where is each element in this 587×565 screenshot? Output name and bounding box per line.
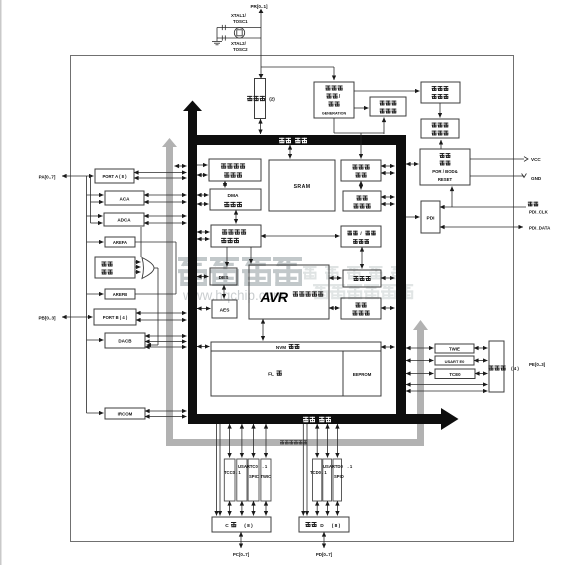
svg-text:PDI_CLK: PDI_CLK <box>529 210 549 215</box>
svg-text:ADCA: ADCA <box>117 218 131 223</box>
svg-text:PORT A ( 8 ): PORT A ( 8 ) <box>102 174 127 179</box>
svg-text:(2): (2) <box>269 97 275 102</box>
svg-text:GND: GND <box>531 176 542 181</box>
svg-text:FL: FL <box>268 372 274 378</box>
svg-text:( 8 ): ( 8 ) <box>332 523 341 529</box>
svg-text:PA[0..7]: PA[0..7] <box>39 175 56 180</box>
svg-text:NVM: NVM <box>276 345 286 350</box>
svg-text:XTAL2/: XTAL2/ <box>231 41 247 46</box>
svg-text:( 8 ): ( 8 ) <box>244 523 253 529</box>
svg-text:PD[0..7]: PD[0..7] <box>316 552 333 557</box>
svg-text:USARTD0: USARTD0 <box>323 464 343 469</box>
svg-text:USARTC0: USARTC0 <box>238 464 258 469</box>
svg-text:C: C <box>225 523 229 529</box>
svg-text:AVR: AVR <box>259 289 288 305</box>
svg-text:PORT B ( 4 ): PORT B ( 4 ) <box>103 315 128 320</box>
svg-text:SPID: SPID <box>334 474 344 479</box>
svg-text:TCE0: TCE0 <box>449 372 461 377</box>
svg-text:TCC0 . 1: TCC0 . 1 <box>224 470 241 475</box>
svg-text:TWIC: TWIC <box>261 474 272 479</box>
svg-text:SPIC: SPIC <box>249 474 259 479</box>
svg-text:XTAL1/: XTAL1/ <box>231 13 247 18</box>
svg-text:VCC: VCC <box>531 157 541 162</box>
svg-text:DES: DES <box>219 275 230 281</box>
svg-text:RESET: RESET <box>438 177 453 182</box>
svg-text:( 4 ): ( 4 ) <box>511 366 519 371</box>
svg-text:GENERATION: GENERATION <box>322 112 347 116</box>
svg-text:D: D <box>320 523 324 529</box>
svg-text:DACB: DACB <box>118 339 132 344</box>
svg-text:PE[0..3]: PE[0..3] <box>529 362 546 367</box>
svg-text:. 1: . 1 <box>348 464 353 469</box>
svg-text:EEPROM: EEPROM <box>353 372 372 377</box>
svg-text:PB[0..3]: PB[0..3] <box>38 316 56 321</box>
svg-text:AREFA: AREFA <box>113 240 127 245</box>
svg-text:DMA: DMA <box>228 193 239 199</box>
svg-text:TWIE: TWIE <box>449 347 460 352</box>
svg-text:. 1: . 1 <box>263 464 268 469</box>
svg-text:SRAM: SRAM <box>294 184 311 190</box>
svg-text:ACA: ACA <box>120 197 131 202</box>
svg-text:AREFB: AREFB <box>113 292 127 297</box>
svg-text:IRCOM: IRCOM <box>118 412 133 417</box>
svg-text:POR / BOD&: POR / BOD& <box>432 169 458 174</box>
svg-text:USART E0: USART E0 <box>445 359 466 364</box>
svg-text:PDI: PDI <box>427 216 436 222</box>
svg-text:TCD0 . 1: TCD0 . 1 <box>310 470 327 475</box>
svg-text:PR[0..1]: PR[0..1] <box>250 4 268 9</box>
svg-text:PC[0..7]: PC[0..7] <box>233 552 250 557</box>
svg-text:TOSC2: TOSC2 <box>233 47 248 52</box>
svg-text:AES: AES <box>220 308 231 314</box>
svg-text:TOSC1: TOSC1 <box>233 19 248 24</box>
svg-text:PDI_DATA: PDI_DATA <box>529 226 551 231</box>
